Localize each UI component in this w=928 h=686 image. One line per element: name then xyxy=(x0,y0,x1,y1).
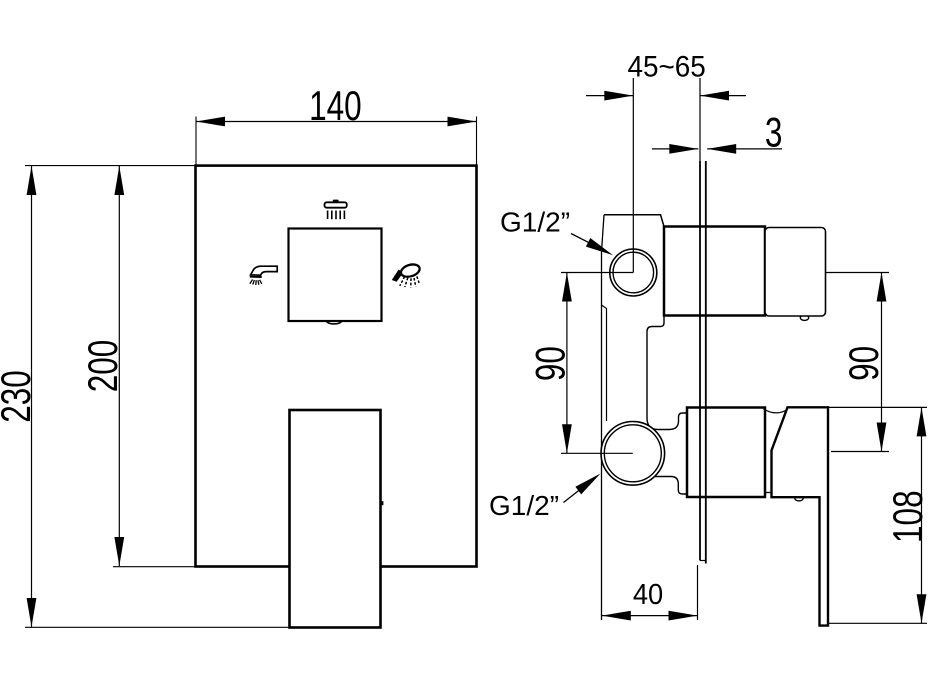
hand spout icon left xyxy=(250,266,277,285)
side view body left edge and 40 extension xyxy=(602,215,605,620)
handle screw xyxy=(795,496,803,501)
wall bottom step xyxy=(700,560,706,562)
lever handle front view xyxy=(290,410,381,628)
dim 45-65 line left xyxy=(586,95,633,97)
dim 200 line xyxy=(118,166,120,566)
extension line plate top left xyxy=(25,165,196,167)
108 top extension xyxy=(828,406,927,408)
dim 230 bottom extension xyxy=(25,626,290,628)
dim 90 right line xyxy=(881,273,883,452)
label G1/2 bottom leader xyxy=(564,490,581,503)
dim 140 arrows xyxy=(196,117,225,127)
dim 45-65 line right xyxy=(700,95,746,97)
side view neck upper step xyxy=(647,316,687,430)
side view body inner contour xyxy=(602,305,607,421)
svg-text:45~65: 45~65 xyxy=(627,50,705,83)
108 bottom extension xyxy=(828,622,927,624)
front view faceplate xyxy=(196,166,477,567)
dim 40 line xyxy=(602,615,698,617)
dim 108 line xyxy=(921,407,923,623)
handle screw dot front view xyxy=(380,501,384,505)
dim 90 left line xyxy=(566,273,568,454)
dim 3 line right xyxy=(707,148,782,150)
top port inner circle xyxy=(613,252,654,293)
svg-text:200: 200 xyxy=(80,340,126,393)
lever handle side view xyxy=(772,407,829,625)
dim 230 line xyxy=(31,166,33,627)
dim 3 line left xyxy=(652,148,698,150)
top port centerline horizontal xyxy=(561,272,633,274)
dim 140 extension lines xyxy=(196,117,477,166)
overhead shower icon xyxy=(325,200,347,220)
svg-text:3: 3 xyxy=(765,109,783,155)
top cover screw xyxy=(800,315,808,320)
top port centerline right xyxy=(826,272,889,274)
label G1/2 top leader xyxy=(571,234,590,244)
port housing to handle connector xyxy=(765,492,772,494)
bottom port inner circle xyxy=(604,425,661,482)
hand shower icon right xyxy=(392,262,421,287)
45-65 right extension xyxy=(699,78,701,161)
top port outer circle xyxy=(610,249,657,296)
dim 200 bottom extension xyxy=(113,566,196,568)
dim 140 line xyxy=(196,121,477,123)
diverter knob bump xyxy=(327,318,342,324)
svg-text:108: 108 xyxy=(885,490,928,543)
svg-text:40: 40 xyxy=(633,578,663,610)
diverter square plate xyxy=(289,229,382,322)
top outer cover rect2 xyxy=(765,228,826,317)
handle base arc xyxy=(764,409,788,413)
bottom port outer circle xyxy=(601,422,665,486)
svg-text:90: 90 xyxy=(841,346,887,381)
svg-text:140: 140 xyxy=(309,83,362,129)
svg-text:G1/2”: G1/2” xyxy=(500,206,570,237)
top port centerline vertical xyxy=(632,78,634,273)
side view body lower step xyxy=(655,477,687,495)
svg-text:230: 230 xyxy=(0,370,39,423)
bottom port centerline xyxy=(561,452,633,454)
cartridge housing rect1 xyxy=(664,227,765,316)
wall line right xyxy=(705,161,707,564)
bottom port housing xyxy=(687,408,765,498)
svg-text:G1/2”: G1/2” xyxy=(489,490,559,521)
side view body top edge xyxy=(604,215,664,227)
handle bottom extension right 90 xyxy=(831,451,889,453)
wall line left xyxy=(699,161,701,561)
40 right extension xyxy=(697,565,699,620)
svg-text:90: 90 xyxy=(527,346,573,381)
